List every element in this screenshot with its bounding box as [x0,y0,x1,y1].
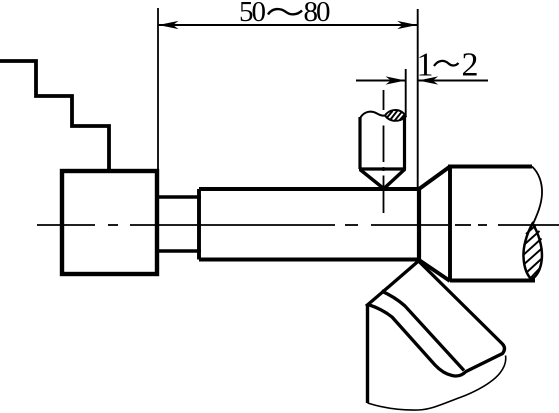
upper tool centerline [383,90,385,213]
workpiece neck bottom [157,249,201,252]
cone to bar stock [419,167,450,282]
dimension line 1~2 left part [356,80,406,82]
bar stock outline [450,167,535,282]
shaft outline [199,189,418,260]
svg-text:80: 80 [304,0,331,28]
main centerline [37,224,559,226]
extension line right (50~80 / 1~2) [417,9,419,189]
extension line 1~2 left [405,69,407,117]
upper tool point [360,170,405,189]
dimension line 1~2 right part [418,80,488,82]
lens hatching [523,226,542,279]
lower tool break curve [368,356,506,411]
chuck jaw step profile [0,61,109,171]
bar break section lens [523,224,541,280]
shoulder vertical at cut [417,188,421,261]
tilde of 50~80 [268,9,302,14]
arrow right 50~80 [397,21,417,29]
tilde of 1~2 [434,61,459,66]
upper tool break lens [385,110,406,121]
workpiece neck top [157,195,201,198]
upper tool lens hatching [388,111,406,121]
bar break S-curve [532,167,542,225]
lower tool front face edge [366,305,369,404]
lower tool side-face edge [382,291,465,371]
upper tool break curve [361,112,386,118]
svg-text:2: 2 [462,47,479,84]
lower tool outline [368,261,505,376]
extension line left (50~80) [157,8,159,171]
svg-text:1: 1 [417,47,434,84]
arrow pointing right at 405.5 [386,76,406,84]
upper tool body [359,116,406,169]
dimension line 50~80 [158,24,418,26]
arrow left 50~80 [159,21,179,29]
arrow pointing left at 418 [418,76,438,84]
svg-text:50: 50 [239,0,266,28]
chuck body [62,171,157,274]
